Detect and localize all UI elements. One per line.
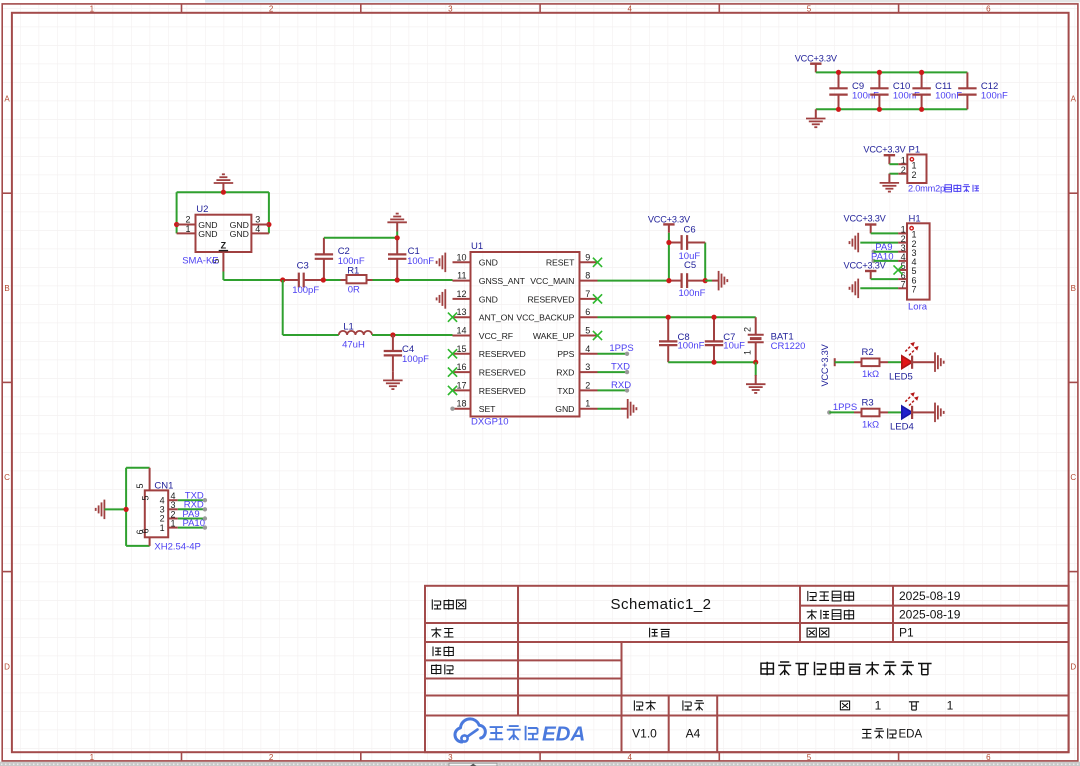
svg-text:SET: SET bbox=[479, 404, 496, 414]
svg-text:2: 2 bbox=[269, 753, 274, 762]
ground (H1 pin7) bbox=[850, 279, 899, 299]
svg-text:L1: L1 bbox=[343, 322, 354, 333]
svg-text:GND: GND bbox=[479, 294, 498, 304]
label Lora bbox=[908, 302, 928, 313]
resistor R1 bbox=[323, 265, 372, 295]
svg-text:6: 6 bbox=[585, 307, 590, 317]
junction dot (L1/C4) bbox=[390, 332, 395, 337]
power flag VCC+3.3V (C6) bbox=[648, 214, 691, 242]
svg-text:RESET: RESET bbox=[546, 258, 575, 268]
ground (BAT1) bbox=[746, 362, 766, 393]
no-connect X (H1 pin5) bbox=[894, 265, 903, 274]
svg-text:EDA: EDA bbox=[899, 728, 923, 740]
power flag VCC+3.3V (cap bank) bbox=[795, 54, 838, 73]
capacitor C10 bbox=[870, 72, 920, 109]
svg-text:0R: 0R bbox=[348, 284, 360, 295]
svg-text:1kΩ: 1kΩ bbox=[862, 369, 879, 380]
junction dots (C5/C6) bbox=[666, 240, 708, 283]
svg-text:GNSS_ANT: GNSS_ANT bbox=[479, 276, 526, 286]
svg-text:7: 7 bbox=[585, 289, 590, 299]
svg-text:Schematic1_2: Schematic1_2 bbox=[610, 596, 711, 613]
wire bbox=[889, 173, 898, 175]
svg-text:4: 4 bbox=[255, 224, 260, 234]
svg-text:C: C bbox=[1070, 473, 1076, 482]
svg-text:SMA-KE: SMA-KE bbox=[182, 255, 218, 266]
connector CN1 XH2.54-4P bbox=[135, 468, 201, 553]
capacitor C7 bbox=[705, 317, 745, 362]
net label TXD (U1 RXD) bbox=[598, 362, 631, 375]
junction dots (cap bank) bbox=[836, 70, 924, 112]
svg-text:5: 5 bbox=[585, 326, 590, 336]
svg-text:7: 7 bbox=[901, 280, 906, 290]
svg-text:TXD: TXD bbox=[557, 386, 574, 396]
capacitor C2 bbox=[315, 238, 365, 280]
wire bbox=[871, 278, 898, 280]
svg-text:LED4: LED4 bbox=[890, 422, 914, 433]
capacitor C5 bbox=[669, 260, 706, 299]
title block grid bbox=[425, 586, 1069, 752]
svg-text:6: 6 bbox=[141, 528, 151, 533]
svg-text:16: 16 bbox=[456, 362, 466, 372]
canvas edge strip bottom bbox=[0, 762, 1080, 766]
svg-text:18: 18 bbox=[456, 399, 466, 409]
wire bbox=[668, 243, 670, 281]
net label PA10 bbox=[871, 251, 898, 263]
ground (U2 top) bbox=[214, 174, 234, 192]
power flag VCC+3.3V (P1) bbox=[863, 145, 906, 165]
svg-text:VCC+3.3V: VCC+3.3V bbox=[648, 214, 691, 224]
svg-text:1: 1 bbox=[185, 224, 190, 234]
svg-text:4: 4 bbox=[627, 753, 632, 762]
svg-text:B: B bbox=[4, 284, 9, 293]
svg-text:V1.0: V1.0 bbox=[632, 727, 657, 741]
svg-text:4: 4 bbox=[627, 4, 632, 13]
power flag VCC+3.3V (H1 pin6) bbox=[844, 260, 887, 279]
ground (U1 pin12) bbox=[437, 289, 446, 309]
svg-text:GND: GND bbox=[230, 229, 249, 239]
resistor R2 bbox=[854, 347, 888, 380]
wire bbox=[888, 361, 902, 363]
capacitor C9 bbox=[829, 72, 879, 109]
svg-text:A: A bbox=[4, 95, 10, 104]
svg-text:GND: GND bbox=[555, 404, 574, 414]
ground (C1 top) bbox=[387, 214, 407, 238]
svg-text:1kΩ: 1kΩ bbox=[862, 419, 879, 430]
svg-text:3: 3 bbox=[585, 362, 590, 372]
svg-text:2.0mm2p: 2.0mm2p bbox=[908, 184, 945, 194]
wire bbox=[324, 237, 397, 239]
ground (U1 pin10) bbox=[437, 253, 446, 273]
svg-text:9: 9 bbox=[585, 252, 590, 262]
svg-text:2: 2 bbox=[269, 4, 274, 13]
LED4 bbox=[890, 392, 928, 432]
wire bbox=[283, 280, 339, 335]
connector P1 bbox=[898, 145, 926, 184]
wire bbox=[373, 279, 453, 281]
pin 18 dangling dot bbox=[450, 407, 454, 411]
svg-text:100nF: 100nF bbox=[981, 91, 1008, 102]
net label 1PPS (U1 PPS) bbox=[598, 343, 634, 356]
svg-text:U1: U1 bbox=[471, 241, 483, 252]
svg-text:1: 1 bbox=[171, 518, 176, 528]
svg-text:DXGP10: DXGP10 bbox=[471, 417, 509, 428]
svg-text:TXD: TXD bbox=[611, 362, 630, 373]
svg-text:ANT_ON: ANT_ON bbox=[479, 313, 514, 323]
svg-text:RESERVED: RESERVED bbox=[479, 368, 526, 378]
svg-text:VCC+3.3V: VCC+3.3V bbox=[844, 260, 887, 270]
svg-text:PPS: PPS bbox=[557, 349, 574, 359]
svg-text:100pF: 100pF bbox=[292, 285, 319, 296]
svg-text:2: 2 bbox=[912, 170, 917, 180]
svg-text:17: 17 bbox=[456, 380, 466, 390]
capacitor C8 bbox=[659, 317, 705, 362]
connector H1 bbox=[898, 213, 930, 299]
svg-text:5: 5 bbox=[141, 495, 151, 500]
svg-text:XH2.54-4P: XH2.54-4P bbox=[154, 541, 200, 552]
svg-text:GND: GND bbox=[479, 258, 498, 268]
svg-text:RXD: RXD bbox=[611, 380, 631, 391]
svg-text:2025-08-19: 2025-08-19 bbox=[899, 589, 961, 603]
svg-text:EDA: EDA bbox=[542, 722, 585, 745]
svg-text:1: 1 bbox=[90, 753, 95, 762]
svg-text:CR1220: CR1220 bbox=[771, 341, 806, 352]
ground (LED5) bbox=[928, 352, 944, 372]
svg-text:VCC+3.3V: VCC+3.3V bbox=[795, 54, 838, 64]
svg-text:1PPS: 1PPS bbox=[833, 402, 857, 413]
svg-text:RESERVED: RESERVED bbox=[479, 386, 526, 396]
ground (LED4) bbox=[928, 403, 944, 423]
title block texts bbox=[431, 589, 961, 741]
svg-text:100nF: 100nF bbox=[678, 341, 705, 352]
capacitor C4 bbox=[384, 335, 429, 371]
svg-text:1: 1 bbox=[912, 160, 917, 170]
svg-text:R2: R2 bbox=[862, 347, 874, 358]
junction dots (RF net) bbox=[280, 235, 400, 282]
LED5 bbox=[889, 342, 928, 383]
IC U1 DXGP10 GNSS module bbox=[453, 241, 598, 428]
svg-text:3: 3 bbox=[448, 753, 453, 762]
capacitor C11 bbox=[912, 72, 962, 109]
wire bbox=[704, 243, 706, 281]
svg-text:VCC+3.3V: VCC+3.3V bbox=[820, 343, 830, 386]
svg-text:GND: GND bbox=[198, 229, 217, 239]
no-connect X (U1 left pins 13,15,16,17) bbox=[448, 313, 457, 395]
svg-text:C5: C5 bbox=[684, 260, 696, 271]
capacitor C12 bbox=[958, 72, 1008, 109]
svg-text:R3: R3 bbox=[862, 398, 874, 409]
svg-text:U2: U2 bbox=[196, 204, 208, 215]
svg-text:2025-08-19: 2025-08-19 bbox=[899, 608, 961, 622]
svg-text:2: 2 bbox=[743, 327, 753, 332]
net label PA9 (CN1) bbox=[178, 509, 207, 521]
power port VCC+3.3V (rotated, LED5) bbox=[820, 343, 835, 386]
svg-text:4: 4 bbox=[585, 344, 590, 354]
net label TXD (CN1) bbox=[178, 490, 207, 502]
wire bbox=[177, 191, 269, 193]
svg-text:10uF: 10uF bbox=[723, 341, 745, 352]
antenna connector U2 SMA-KE bbox=[177, 204, 269, 272]
svg-text:B: B bbox=[1071, 284, 1076, 293]
svg-text:PA10: PA10 bbox=[182, 518, 205, 529]
svg-text:D: D bbox=[1070, 662, 1076, 671]
ground (H1 pin2) bbox=[850, 233, 899, 253]
net label RXD (CN1) bbox=[178, 500, 207, 512]
svg-text:14: 14 bbox=[456, 326, 466, 336]
canvas edge strip top bbox=[205, 0, 1080, 3]
net label PA10 (CN1) bbox=[178, 518, 207, 530]
svg-text:1PPS: 1PPS bbox=[609, 343, 633, 354]
svg-text:100nF: 100nF bbox=[338, 256, 365, 267]
svg-text:1: 1 bbox=[875, 699, 882, 713]
svg-text:1: 1 bbox=[743, 350, 753, 355]
svg-text:15: 15 bbox=[456, 344, 466, 354]
svg-text:7: 7 bbox=[912, 285, 917, 295]
svg-text:8: 8 bbox=[585, 271, 590, 281]
svg-text:1: 1 bbox=[90, 4, 95, 13]
wire bbox=[835, 361, 854, 363]
svg-text:1: 1 bbox=[585, 399, 590, 409]
svg-text:C3: C3 bbox=[297, 261, 309, 272]
svg-text:LED5: LED5 bbox=[889, 372, 913, 383]
svg-text:11: 11 bbox=[457, 271, 466, 281]
wire bbox=[816, 108, 968, 110]
svg-text:5: 5 bbox=[807, 753, 812, 762]
ground (CN1) bbox=[96, 500, 126, 519]
svg-text:5: 5 bbox=[807, 4, 812, 13]
svg-text:RESERVED: RESERVED bbox=[479, 349, 526, 359]
wire bbox=[598, 280, 669, 282]
net label PA9 bbox=[872, 242, 899, 254]
svg-text:1: 1 bbox=[947, 699, 954, 713]
svg-text:100nF: 100nF bbox=[679, 288, 706, 299]
wire bbox=[871, 232, 898, 234]
wire bbox=[816, 71, 968, 73]
svg-text:C: C bbox=[4, 473, 10, 482]
junction dot (CN1 gnd) bbox=[124, 507, 129, 512]
svg-text:VCC_BACKUP: VCC_BACKUP bbox=[516, 313, 574, 323]
svg-text:RXD: RXD bbox=[556, 368, 574, 378]
svg-text:100nF: 100nF bbox=[852, 91, 879, 102]
svg-text:12: 12 bbox=[456, 289, 466, 299]
svg-text:VCC_MAIN: VCC_MAIN bbox=[530, 276, 574, 286]
svg-text:VCC+3.3V: VCC+3.3V bbox=[844, 213, 887, 223]
ground (cap bank) bbox=[806, 109, 826, 127]
svg-text:3: 3 bbox=[448, 4, 453, 13]
battery BAT1 CR1220 bbox=[743, 317, 806, 362]
svg-text:2: 2 bbox=[585, 380, 590, 390]
svg-text:A4: A4 bbox=[686, 727, 701, 741]
JLCEDA logo bbox=[455, 719, 585, 745]
svg-text:6: 6 bbox=[986, 4, 991, 13]
wire bbox=[268, 192, 270, 233]
capacitor C6 bbox=[669, 224, 705, 262]
svg-text:1: 1 bbox=[160, 523, 165, 533]
no-connect X (U1 right pins 9,7,5) bbox=[593, 258, 602, 340]
wire bbox=[176, 192, 178, 233]
svg-text:100pF: 100pF bbox=[402, 354, 429, 365]
svg-text:VCC+3.3V: VCC+3.3V bbox=[863, 145, 906, 155]
wire bbox=[372, 334, 452, 336]
wire bbox=[125, 468, 127, 546]
wire bbox=[598, 316, 756, 318]
capacitor C1 bbox=[388, 238, 434, 280]
svg-text:D: D bbox=[4, 662, 10, 671]
svg-text:10: 10 bbox=[456, 252, 466, 262]
svg-text:RESERVED: RESERVED bbox=[527, 294, 574, 304]
wire bbox=[889, 163, 898, 165]
svg-text:100nF: 100nF bbox=[935, 91, 962, 102]
inductor L1 bbox=[339, 322, 372, 351]
svg-text:Z: Z bbox=[221, 241, 227, 251]
label 2.0mm2p header bbox=[908, 184, 979, 194]
wire bbox=[668, 361, 756, 363]
resistor R3 bbox=[854, 398, 888, 431]
svg-text:P1: P1 bbox=[899, 626, 914, 640]
svg-text:VCC_RF: VCC_RF bbox=[479, 331, 513, 341]
wire bbox=[223, 272, 282, 281]
svg-text:47uH: 47uH bbox=[342, 340, 365, 351]
wire bbox=[888, 411, 902, 413]
ground (U1 pin1) bbox=[598, 399, 637, 419]
capacitor C3 bbox=[283, 261, 324, 297]
svg-text:6: 6 bbox=[986, 753, 991, 762]
wire bbox=[126, 545, 150, 547]
junction dots (backup rail) bbox=[666, 315, 759, 365]
svg-text:100nF: 100nF bbox=[407, 256, 434, 267]
ground (C4) bbox=[383, 371, 403, 389]
svg-text:100nF: 100nF bbox=[893, 91, 920, 102]
svg-text:13: 13 bbox=[456, 307, 466, 317]
ground (C5) bbox=[705, 271, 727, 291]
svg-text:A: A bbox=[1071, 95, 1077, 104]
svg-text:5: 5 bbox=[135, 483, 145, 488]
svg-text:C6: C6 bbox=[684, 224, 696, 235]
svg-text:WAKE_UP: WAKE_UP bbox=[533, 331, 575, 341]
net label 1PPS (LED4) bbox=[827, 402, 857, 415]
wire bbox=[126, 467, 150, 469]
ground (P1) bbox=[880, 174, 900, 192]
junction dots (U2 net) bbox=[174, 190, 272, 228]
svg-text:Lora: Lora bbox=[908, 302, 928, 313]
power flag VCC+3.3V (H1 pin1) bbox=[844, 213, 887, 233]
net label RXD (U1 TXD) bbox=[598, 380, 632, 393]
